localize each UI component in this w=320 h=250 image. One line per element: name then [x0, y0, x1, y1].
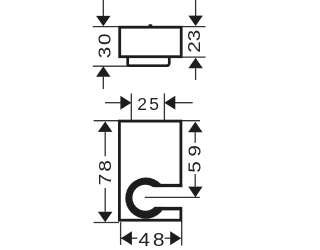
svg-text:25: 25 — [137, 94, 161, 114]
svg-text:78: 78 — [97, 158, 116, 185]
svg-text:30: 30 — [96, 32, 115, 59]
svg-text:23: 23 — [185, 30, 204, 53]
svg-text:59: 59 — [186, 140, 205, 172]
svg-text:48: 48 — [138, 230, 167, 250]
